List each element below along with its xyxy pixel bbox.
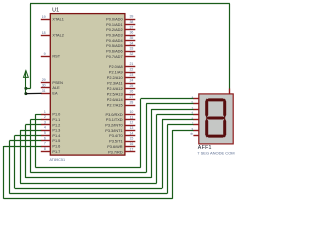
wire VCC right vertical to display (229, 4, 231, 89)
pin P2.4/A12 (25) (107, 84, 136, 91)
svg-text:P1.7: P1.7 (52, 150, 60, 154)
wire P1.6 to display segment g (4, 130, 194, 199)
svg-text:P2.2/A10: P2.2/A10 (107, 76, 123, 80)
pin P0.4/AD4 (35) (106, 36, 135, 43)
svg-text:8: 8 (44, 147, 46, 151)
svg-text:25: 25 (129, 84, 133, 88)
svg-text:16: 16 (129, 142, 133, 146)
svg-text:18: 18 (42, 31, 46, 35)
svg-text:RST: RST (52, 55, 60, 59)
svg-text:XTAL1: XTAL1 (52, 18, 63, 22)
svg-text:11: 11 (130, 115, 134, 119)
svg-text:38: 38 (129, 20, 133, 24)
pin P3.7/RD (17) (108, 147, 135, 154)
pin XTAL1 (19) (41, 15, 64, 22)
svg-text:15: 15 (129, 137, 133, 141)
segment f (top-left) (205, 98, 208, 118)
svg-text:39: 39 (129, 15, 133, 19)
pin P3.6/WR (16) (107, 142, 135, 149)
svg-text:P2.1/A9: P2.1/A9 (109, 71, 123, 75)
svg-text:19: 19 (42, 15, 46, 19)
svg-text:P1.0: P1.0 (52, 113, 60, 117)
svg-text:1: 1 (44, 110, 46, 114)
svg-text:34: 34 (129, 41, 133, 45)
svg-text:PSEN: PSEN (52, 81, 63, 85)
pin P1.5 (6) (41, 136, 61, 143)
pin P1.1 (2) (41, 115, 61, 122)
wire P1.4 to display segment e (15, 120, 194, 189)
svg-text:9: 9 (44, 52, 46, 56)
svg-text:P1.4: P1.4 (52, 134, 61, 138)
segment d (bottom) (206, 135, 226, 138)
svg-text:4: 4 (44, 126, 46, 130)
display segment pin c (192, 105, 199, 109)
display segment pin b (192, 100, 199, 104)
pin P3.3/INT1 (13) (105, 126, 135, 133)
svg-text:P3.4/T0: P3.4/T0 (109, 134, 122, 138)
wire P1.3 to display segment d (20, 114, 194, 183)
pin P3.1/TXD (11) (106, 115, 135, 122)
svg-text:P2.7/A15: P2.7/A15 (107, 104, 123, 108)
svg-text:24: 24 (129, 79, 133, 83)
svg-text:P3.0/RXD: P3.0/RXD (106, 113, 123, 117)
pin P2.7/A15 (28) (107, 101, 136, 108)
pin P0.5/AD5 (34) (106, 41, 135, 48)
svg-text:P3.1/TXD: P3.1/TXD (106, 118, 123, 122)
svg-text:P0.1/AD1: P0.1/AD1 (106, 23, 122, 27)
svg-text:P3.3/INT1: P3.3/INT1 (105, 129, 122, 133)
svg-text:31: 31 (42, 89, 46, 93)
svg-text:U1: U1 (52, 7, 59, 13)
IC U1 AT89C51 body (50, 14, 125, 156)
svg-text:13: 13 (129, 126, 133, 130)
svg-text:P2.3/A11: P2.3/A11 (107, 82, 123, 86)
svg-text:P1.3: P1.3 (52, 129, 60, 133)
svg-text:14: 14 (129, 131, 133, 135)
svg-text:P0.0/AD0: P0.0/AD0 (106, 18, 122, 22)
segment b (top-right) (223, 98, 226, 118)
svg-text:28: 28 (129, 101, 133, 105)
pin P0.1/AD1 (38) (106, 20, 135, 27)
svg-text:EA: EA (52, 92, 58, 96)
display segment pin d (192, 111, 199, 115)
svg-text:XTAL2: XTAL2 (52, 34, 63, 38)
pin P1.0 (1) (41, 110, 61, 117)
svg-text:36: 36 (129, 31, 133, 35)
segment e (bottom-left) (205, 118, 208, 138)
svg-text:3: 3 (44, 120, 46, 124)
svg-text:P0.7/AD7: P0.7/AD7 (106, 55, 122, 59)
svg-text:30: 30 (42, 83, 46, 87)
svg-text:P0.4/AD4: P0.4/AD4 (106, 39, 123, 43)
junction EA node (24, 92, 27, 95)
pin P3.2/INT0 (12) (105, 121, 135, 128)
svg-text:10: 10 (129, 110, 133, 114)
segment a (top) (206, 98, 226, 101)
svg-text:37: 37 (129, 25, 133, 29)
pin XTAL2 (18) (41, 31, 64, 38)
svg-text:23: 23 (129, 73, 133, 77)
pin P0.0/AD0 (39) (106, 15, 135, 22)
svg-text:P3.2/INT0: P3.2/INT0 (105, 124, 122, 128)
display common anode pin (229, 89, 231, 94)
svg-text:12: 12 (129, 121, 133, 125)
pin P0.3/AD3 (36) (106, 31, 135, 38)
pin P0.6/AD6 (33) (106, 47, 135, 54)
svg-text:29: 29 (42, 78, 46, 82)
wire P1.1 to display segment b (30, 104, 193, 173)
pin P2.5/A13 (26) (107, 90, 136, 97)
svg-text:P0.5/AD5: P0.5/AD5 (106, 44, 122, 48)
svg-text:2: 2 (44, 115, 46, 119)
junction power node (24, 87, 27, 90)
pin P0.7/AD7 (32) (106, 52, 135, 59)
svg-text:6: 6 (44, 136, 46, 140)
wire P1.0 to display segment a (35, 99, 193, 168)
wire P1.2 to display segment c (25, 109, 193, 178)
pin P3.4/T0 (14) (109, 131, 135, 138)
svg-text:27: 27 (129, 95, 133, 99)
pin P1.2 (3) (41, 120, 61, 127)
svg-text:ALE: ALE (52, 86, 60, 90)
svg-text:P2.4/A12: P2.4/A12 (107, 87, 123, 91)
svg-text:P1.2: P1.2 (52, 123, 60, 127)
svg-text:dp: dp (190, 132, 194, 136)
svg-text:32: 32 (129, 52, 133, 56)
pin P2.0/A8 (21) (109, 62, 135, 69)
svg-text:P3.5/T1: P3.5/T1 (109, 140, 122, 144)
svg-text:P0.2/AD2: P0.2/AD2 (106, 28, 122, 32)
svg-text:P2.0/A8: P2.0/A8 (109, 65, 123, 69)
pin EA (31) (41, 89, 58, 96)
svg-text:26: 26 (129, 90, 133, 94)
svg-text:P2.6/A14: P2.6/A14 (107, 98, 124, 102)
svg-text:P0.6/AD6: P0.6/AD6 (106, 50, 122, 54)
svg-text:P3.6/WR: P3.6/WR (107, 145, 123, 149)
svg-text:P1.1: P1.1 (52, 118, 60, 122)
pin P2.1/A9 (22) (109, 68, 135, 75)
wire VCC top horizontal (30, 3, 230, 5)
wire VCC left vertical (26, 4, 31, 89)
svg-text:17: 17 (129, 147, 133, 151)
pin P2.6/A14 (27) (107, 95, 136, 102)
pin P1.3 (4) (41, 126, 61, 133)
svg-text:7 SEG ANODE COM: 7 SEG ANODE COM (197, 151, 234, 156)
svg-text:P1.6: P1.6 (52, 145, 60, 149)
svg-text:35: 35 (129, 36, 133, 40)
pin P1.4 (5) (41, 131, 61, 138)
svg-text:7: 7 (44, 142, 46, 146)
svg-text:22: 22 (129, 68, 133, 72)
display segment pin f (192, 121, 198, 125)
svg-text:5: 5 (44, 131, 46, 135)
display segment pin a (192, 95, 199, 99)
segment g (middle) (206, 117, 226, 120)
pin P1.7 (8) (41, 147, 61, 154)
svg-text:P2.5/A13: P2.5/A13 (107, 93, 123, 97)
wire P1.5 to display segment f (9, 125, 193, 194)
display segment pin dp (unconnected) (190, 132, 199, 136)
svg-text:AT89C51: AT89C51 (49, 158, 65, 162)
pin P2.3/A11 (24) (107, 79, 135, 86)
svg-text:P0.3/AD3: P0.3/AD3 (106, 34, 122, 38)
svg-text:P1.5: P1.5 (52, 139, 60, 143)
svg-text:P3.7/RD: P3.7/RD (108, 150, 123, 154)
display segment pin e (192, 116, 199, 120)
power symbol (24, 71, 29, 94)
display segment pin g (192, 126, 199, 130)
wire EA (26, 92, 42, 94)
svg-text:33: 33 (129, 47, 133, 51)
svg-text:21: 21 (129, 62, 133, 66)
pin RST (9) (41, 52, 61, 59)
segment c (bottom-right) (223, 118, 226, 138)
pin P3.5/T1 (15) (109, 137, 135, 144)
pin P3.0/RXD (10) (106, 110, 136, 117)
pin PSEN (29) (41, 78, 63, 85)
7-segment display AFF1 body (199, 94, 233, 144)
pin P2.2/A10 (23) (107, 73, 136, 80)
pin P0.2/AD2 (37) (106, 25, 135, 32)
pin P1.6 (7) (41, 142, 61, 149)
pin ALE (30) (41, 83, 60, 90)
